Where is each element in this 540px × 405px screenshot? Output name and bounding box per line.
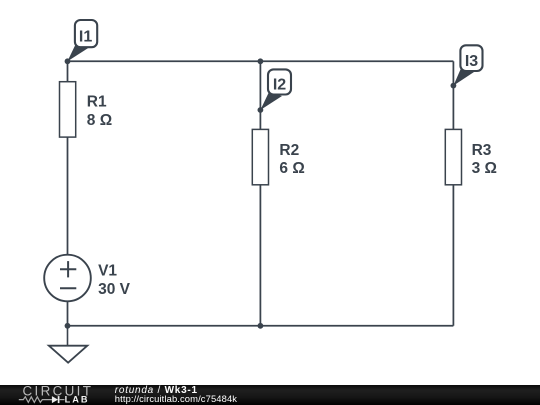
voltage source V1 — [44, 255, 130, 302]
wire: R2 bottom to bottom junction — [259, 186, 261, 326]
wire: bottom horizontal net — [68, 325, 454, 327]
ground — [49, 326, 87, 363]
CircuitLab logo diode — [52, 396, 58, 403]
resistor R1 — [60, 82, 113, 137]
wire: R1 bottom to V1 top — [67, 138, 69, 255]
wire: node I3 down to R3 top — [452, 86, 454, 129]
svg-text:http://circuitlab.com/c75484k: http://circuitlab.com/c75484k — [115, 393, 237, 404]
svg-text:I3: I3 — [465, 53, 478, 70]
resistor R2 — [252, 129, 304, 184]
svg-text:3 Ω: 3 Ω — [472, 160, 497, 177]
current probe callout I3 — [453, 45, 482, 85]
footer bar — [0, 385, 540, 405]
svg-text:V1: V1 — [98, 262, 117, 279]
wire: top junction down to node I2 — [259, 61, 261, 110]
svg-text:LAB: LAB — [65, 395, 90, 405]
svg-text:R1: R1 — [87, 94, 107, 111]
wire: node I2 down to R2 top — [259, 110, 261, 129]
wire: node I1 down to R1 top — [67, 61, 69, 81]
wire: V1 bottom to bottom node — [67, 302, 69, 326]
node I1 dot — [65, 58, 71, 64]
current probe callout I2 — [260, 69, 291, 110]
svg-text:I2: I2 — [273, 77, 286, 94]
svg-text:R2: R2 — [279, 142, 299, 159]
wire: top-right corner down to node I3 — [452, 61, 454, 85]
node I2 dot — [258, 107, 264, 113]
CircuitLab logo zigzag resistor — [19, 397, 52, 403]
node: bottom-left junction — [65, 323, 71, 329]
node: bottom junction of R2 branch — [258, 323, 264, 329]
svg-text:I1: I1 — [79, 28, 92, 45]
svg-text:8 Ω: 8 Ω — [87, 112, 112, 129]
wire: R3 bottom to bottom-right corner — [452, 186, 454, 326]
wire: top horizontal net — [68, 60, 454, 62]
current probe callout I1 — [67, 20, 97, 61]
svg-text:6 Ω: 6 Ω — [279, 160, 304, 177]
node: top junction of R2 branch — [258, 58, 264, 64]
svg-text:R3: R3 — [472, 142, 492, 159]
svg-text:30 V: 30 V — [98, 281, 131, 298]
resistor R3 — [445, 129, 497, 184]
node I3 dot — [451, 83, 457, 89]
